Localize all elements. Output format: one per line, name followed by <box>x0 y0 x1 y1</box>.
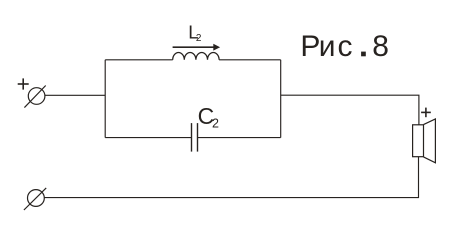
wire (tank output to speaker) <box>281 95 419 125</box>
wire (tank bottom, left of C2) <box>105 137 191 139</box>
wire (input + to tank left) <box>45 94 105 96</box>
capacitor C2 <box>192 123 198 152</box>
label L2 <box>188 22 202 45</box>
plus label (input + terminal) <box>18 78 29 89</box>
wire (tank right vertical) <box>280 60 282 138</box>
current direction arrow <box>173 44 221 51</box>
terminal (input −) <box>24 188 46 210</box>
svg-text:Р: Р <box>300 30 320 63</box>
wire (speaker to return line) <box>44 157 418 198</box>
wire (tank bottom, right of C2) <box>198 137 281 139</box>
wire (tank left vertical) <box>104 60 106 138</box>
svg-text:8: 8 <box>372 30 389 63</box>
svg-text:2: 2 <box>212 117 219 131</box>
label C2 <box>198 103 219 130</box>
terminal (input +) <box>24 86 45 108</box>
svg-text:и: и <box>319 30 336 63</box>
speaker LS1 <box>413 119 436 163</box>
svg-text:2: 2 <box>196 33 202 44</box>
wire (tank top, left of L2) <box>105 59 173 61</box>
plus label (speaker polarity) <box>421 108 431 118</box>
inductor L2 <box>173 53 219 60</box>
wire (tank top, right of L2) <box>219 59 281 61</box>
figure caption Рис.8 <box>300 30 388 63</box>
svg-text:с: с <box>338 30 353 63</box>
